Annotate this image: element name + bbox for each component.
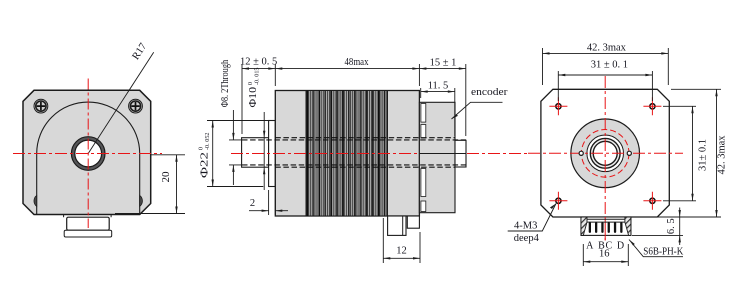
- pilot boss: [269, 121, 276, 187]
- svg-text:16: 16: [599, 248, 610, 259]
- encoder housing: [419, 102, 455, 212]
- svg-text:15 ± 1: 15 ± 1: [430, 58, 457, 69]
- connector front view below plate: [64, 215, 112, 238]
- dim 42.3max right: [660, 89, 728, 217]
- motor front plate outline: [23, 90, 151, 214]
- svg-text:-0. 052: -0. 052: [204, 133, 211, 151]
- small side holes on bolt circle: [579, 151, 583, 155]
- red centerlines left view: [13, 153, 162, 155]
- bearing outer: [590, 138, 620, 168]
- svg-text:2: 2: [250, 198, 255, 209]
- svg-text:11. 5: 11. 5: [428, 80, 449, 91]
- svg-text:-0. 015: -0. 015: [254, 68, 261, 86]
- svg-text:12 ± 0. 5: 12 ± 0. 5: [240, 57, 277, 68]
- svg-text:31 ± 0. 1: 31 ± 0. 1: [591, 60, 628, 71]
- screw top-right: [129, 99, 143, 113]
- svg-text:12: 12: [396, 246, 407, 257]
- svg-text:48max: 48max: [345, 57, 370, 68]
- encoder hub: [455, 140, 466, 167]
- side connector below body: [388, 216, 420, 235]
- svg-text:S6B-PH-K: S6B-PH-K: [643, 246, 683, 257]
- rear connector S6B-PH-K: [581, 217, 631, 241]
- dim phi10: [247, 68, 265, 191]
- dim phi8.2 through: [220, 60, 244, 185]
- dim 12+-0.5: [240, 57, 277, 135]
- red centerlines right view: [528, 152, 683, 154]
- bearing inner / hole: [593, 141, 617, 165]
- svg-text:6. 5: 6. 5: [666, 218, 677, 234]
- dim phi22: [197, 121, 268, 187]
- red bolt circle: [581, 130, 629, 178]
- svg-text:31± 0.1: 31± 0.1: [698, 139, 709, 171]
- svg-text:Φ10: Φ10: [248, 87, 259, 108]
- red centerline middle view: [231, 153, 419, 155]
- label S6B-PH-K with leader: [629, 240, 684, 258]
- hidden hole lines phi8.2: [242, 140, 466, 165]
- dim 31+-0.1 right: [663, 106, 709, 201]
- dim 48max: [275, 57, 419, 86]
- center bearing ring: [71, 137, 105, 171]
- shaft: [242, 138, 269, 168]
- dim 12 (side connector): [383, 218, 420, 263]
- dim 2 (boss): [249, 190, 288, 215]
- hidden shaft lines phi10: [275, 138, 455, 168]
- label encoder with leader: [452, 87, 509, 119]
- screw top-left: [34, 99, 48, 113]
- svg-text:42. 3max: 42. 3max: [717, 135, 728, 175]
- end cap separator lines: [306, 91, 388, 217]
- screw bottom-right (clipped sliver): [140, 195, 143, 206]
- label 4-M3 deep4 with leader: [508, 204, 556, 244]
- pin labels A B C D: [586, 241, 624, 252]
- dim 42.3max top: [543, 43, 669, 86]
- dim 11.5: [421, 80, 455, 136]
- dim 15+-1: [419, 58, 465, 136]
- dim 6.5: [632, 208, 683, 246]
- dimension 20: [115, 155, 185, 214]
- dim 16: [583, 244, 628, 266]
- motor body: [275, 91, 419, 217]
- rear plate outline: [541, 89, 669, 217]
- svg-text:Φ22: Φ22: [199, 152, 210, 178]
- dim 31+-0.1 top: [558, 60, 652, 102]
- corner holes with red crosses: [549, 97, 661, 210]
- rear boss circle: [571, 119, 640, 188]
- svg-text:deep4: deep4: [514, 233, 540, 244]
- svg-text:20: 20: [160, 171, 172, 183]
- encoder mounting slot column: [421, 104, 426, 212]
- svg-text:D: D: [617, 241, 624, 252]
- motor can R17 arc with tangent sides: [37, 102, 140, 214]
- svg-text:42. 3max: 42. 3max: [587, 43, 627, 54]
- svg-text:encoder: encoder: [471, 87, 508, 98]
- leader R17: [88, 52, 154, 153]
- screw bottom-left (clipped sliver): [34, 195, 37, 206]
- svg-text:Φ8. 2Through: Φ8. 2Through: [220, 60, 231, 107]
- svg-text:A: A: [586, 241, 594, 252]
- svg-text:4-M3: 4-M3: [514, 221, 537, 232]
- recess circle: [587, 135, 624, 172]
